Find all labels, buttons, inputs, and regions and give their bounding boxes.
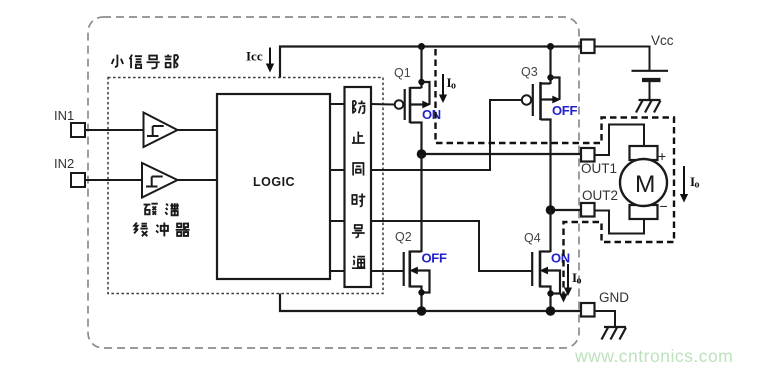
terminal IN2 (71, 173, 85, 187)
wire OUT2 to motor (595, 211, 645, 234)
node Q1 source junction (418, 79, 424, 85)
node Q4 source-body junction (547, 290, 553, 296)
ground (at capacitor) (636, 100, 661, 113)
node top-rail junction at Q1 (418, 43, 425, 50)
wire gate stub to Q2 (371, 270, 404, 272)
motor M1 body (620, 159, 667, 206)
svg-text:o: o (577, 276, 582, 287)
current path dashed (Vcc through Q1, motor) (436, 49, 675, 296)
svg-text:OFF: OFF (422, 251, 447, 266)
terminal IN1 (71, 123, 85, 137)
node Q3 source junction (547, 74, 553, 80)
wire IN2 to buffer (85, 179, 142, 181)
wire OUT2 rail (551, 209, 582, 211)
node Q2 source-body junction (418, 289, 424, 295)
terminal Vcc (581, 40, 595, 54)
node OUT1 junction (417, 149, 427, 159)
wire OUT1 rail (422, 153, 582, 155)
svg-text:LOGIC: LOGIC (253, 175, 295, 189)
LOGIC block (217, 94, 330, 279)
wire IN1 to buffer (85, 129, 143, 131)
svg-text:M: M (635, 171, 655, 198)
node GND rail junction at Q4 (546, 306, 556, 316)
wire Q3 drain to Q4 drain vertical (549, 210, 551, 252)
anti shoot-through block 防止同时导通 (345, 87, 372, 287)
svg-text:OUT2: OUT2 (582, 188, 618, 203)
outer dashed boundary box (IC package) (88, 17, 579, 348)
svg-text:IN1: IN1 (54, 108, 74, 123)
schmitt buffer U2 (IN2) (142, 163, 178, 198)
wire Vcc to capacitor (595, 47, 650, 71)
node GND rail junction at Q2 (417, 306, 427, 316)
svg-text:IN2: IN2 (54, 156, 74, 171)
wire gate stub to Q1 (371, 103, 395, 106)
transistor Q1 (PMOS high side) (395, 82, 430, 154)
ground (at GND) (602, 327, 627, 340)
transistor Q4 (NMOS low side) (532, 251, 560, 312)
wire GND to ground (595, 311, 616, 327)
svg-text:Q4: Q4 (524, 231, 541, 245)
svg-text:o: o (451, 81, 456, 92)
wire gate routing block to Q3 (371, 100, 522, 170)
wire gate routing block to Q4 (371, 221, 532, 271)
svg-text:OUT1: OUT1 (581, 161, 617, 176)
transistor Q3 (PMOS high side) (522, 78, 560, 211)
motor M1 brush top (630, 146, 658, 160)
svg-text:Q3: Q3 (521, 65, 538, 79)
svg-text:+: + (658, 148, 666, 164)
transistor Q2 (NMOS low side) (404, 251, 430, 312)
node top-rail junction at Q3 (547, 43, 554, 50)
wire OUT1 to motor (595, 125, 645, 156)
terminal OUT1 (581, 148, 595, 162)
wire bottom GND rail (280, 294, 581, 312)
terminal GND (581, 303, 595, 317)
label 磁滞缓冲器 (hysteresis buffer) (144, 203, 179, 215)
inner dotted box (small-signal section) (108, 78, 383, 294)
svg-text:OFF: OFF (552, 103, 577, 118)
wire Q3 source to top rail (549, 47, 551, 85)
svg-text:Q1: Q1 (394, 66, 411, 80)
Io arrow at Q4 (567, 264, 569, 290)
motor M1 brush bottom (630, 205, 658, 219)
wire LOGIC to shoot-through block (4 stubs) (330, 104, 345, 271)
svg-text:Icc: Icc (246, 49, 263, 64)
svg-text:ON: ON (551, 251, 570, 266)
Icc arrow (269, 48, 271, 67)
node OUT2 junction (546, 205, 556, 215)
wire Q1 drain to Q2 drain vertical (420, 154, 422, 252)
wire Q1 source to top rail (420, 47, 422, 89)
schmitt buffer U1 (IN1) (144, 113, 178, 148)
wire top Vcc rail (280, 47, 581, 78)
svg-text:Q2: Q2 (395, 230, 412, 244)
label 小信号部 (small-signal section) (112, 54, 178, 68)
svg-text:Vcc: Vcc (651, 33, 674, 48)
svg-text:o: o (695, 180, 700, 191)
svg-text:−: − (660, 198, 668, 214)
wire buffer2 to LOGIC (178, 179, 218, 181)
terminal OUT2 (581, 203, 595, 217)
Io arrow at motor (683, 166, 685, 196)
svg-text:ON: ON (422, 107, 441, 122)
capacitor C1 (632, 70, 669, 72)
svg-text:GND: GND (599, 290, 629, 305)
wire buffer1 to LOGIC (178, 129, 218, 131)
Io arrow at Q1 (442, 74, 444, 97)
svg-text:www.cntronics.com: www.cntronics.com (574, 346, 733, 366)
